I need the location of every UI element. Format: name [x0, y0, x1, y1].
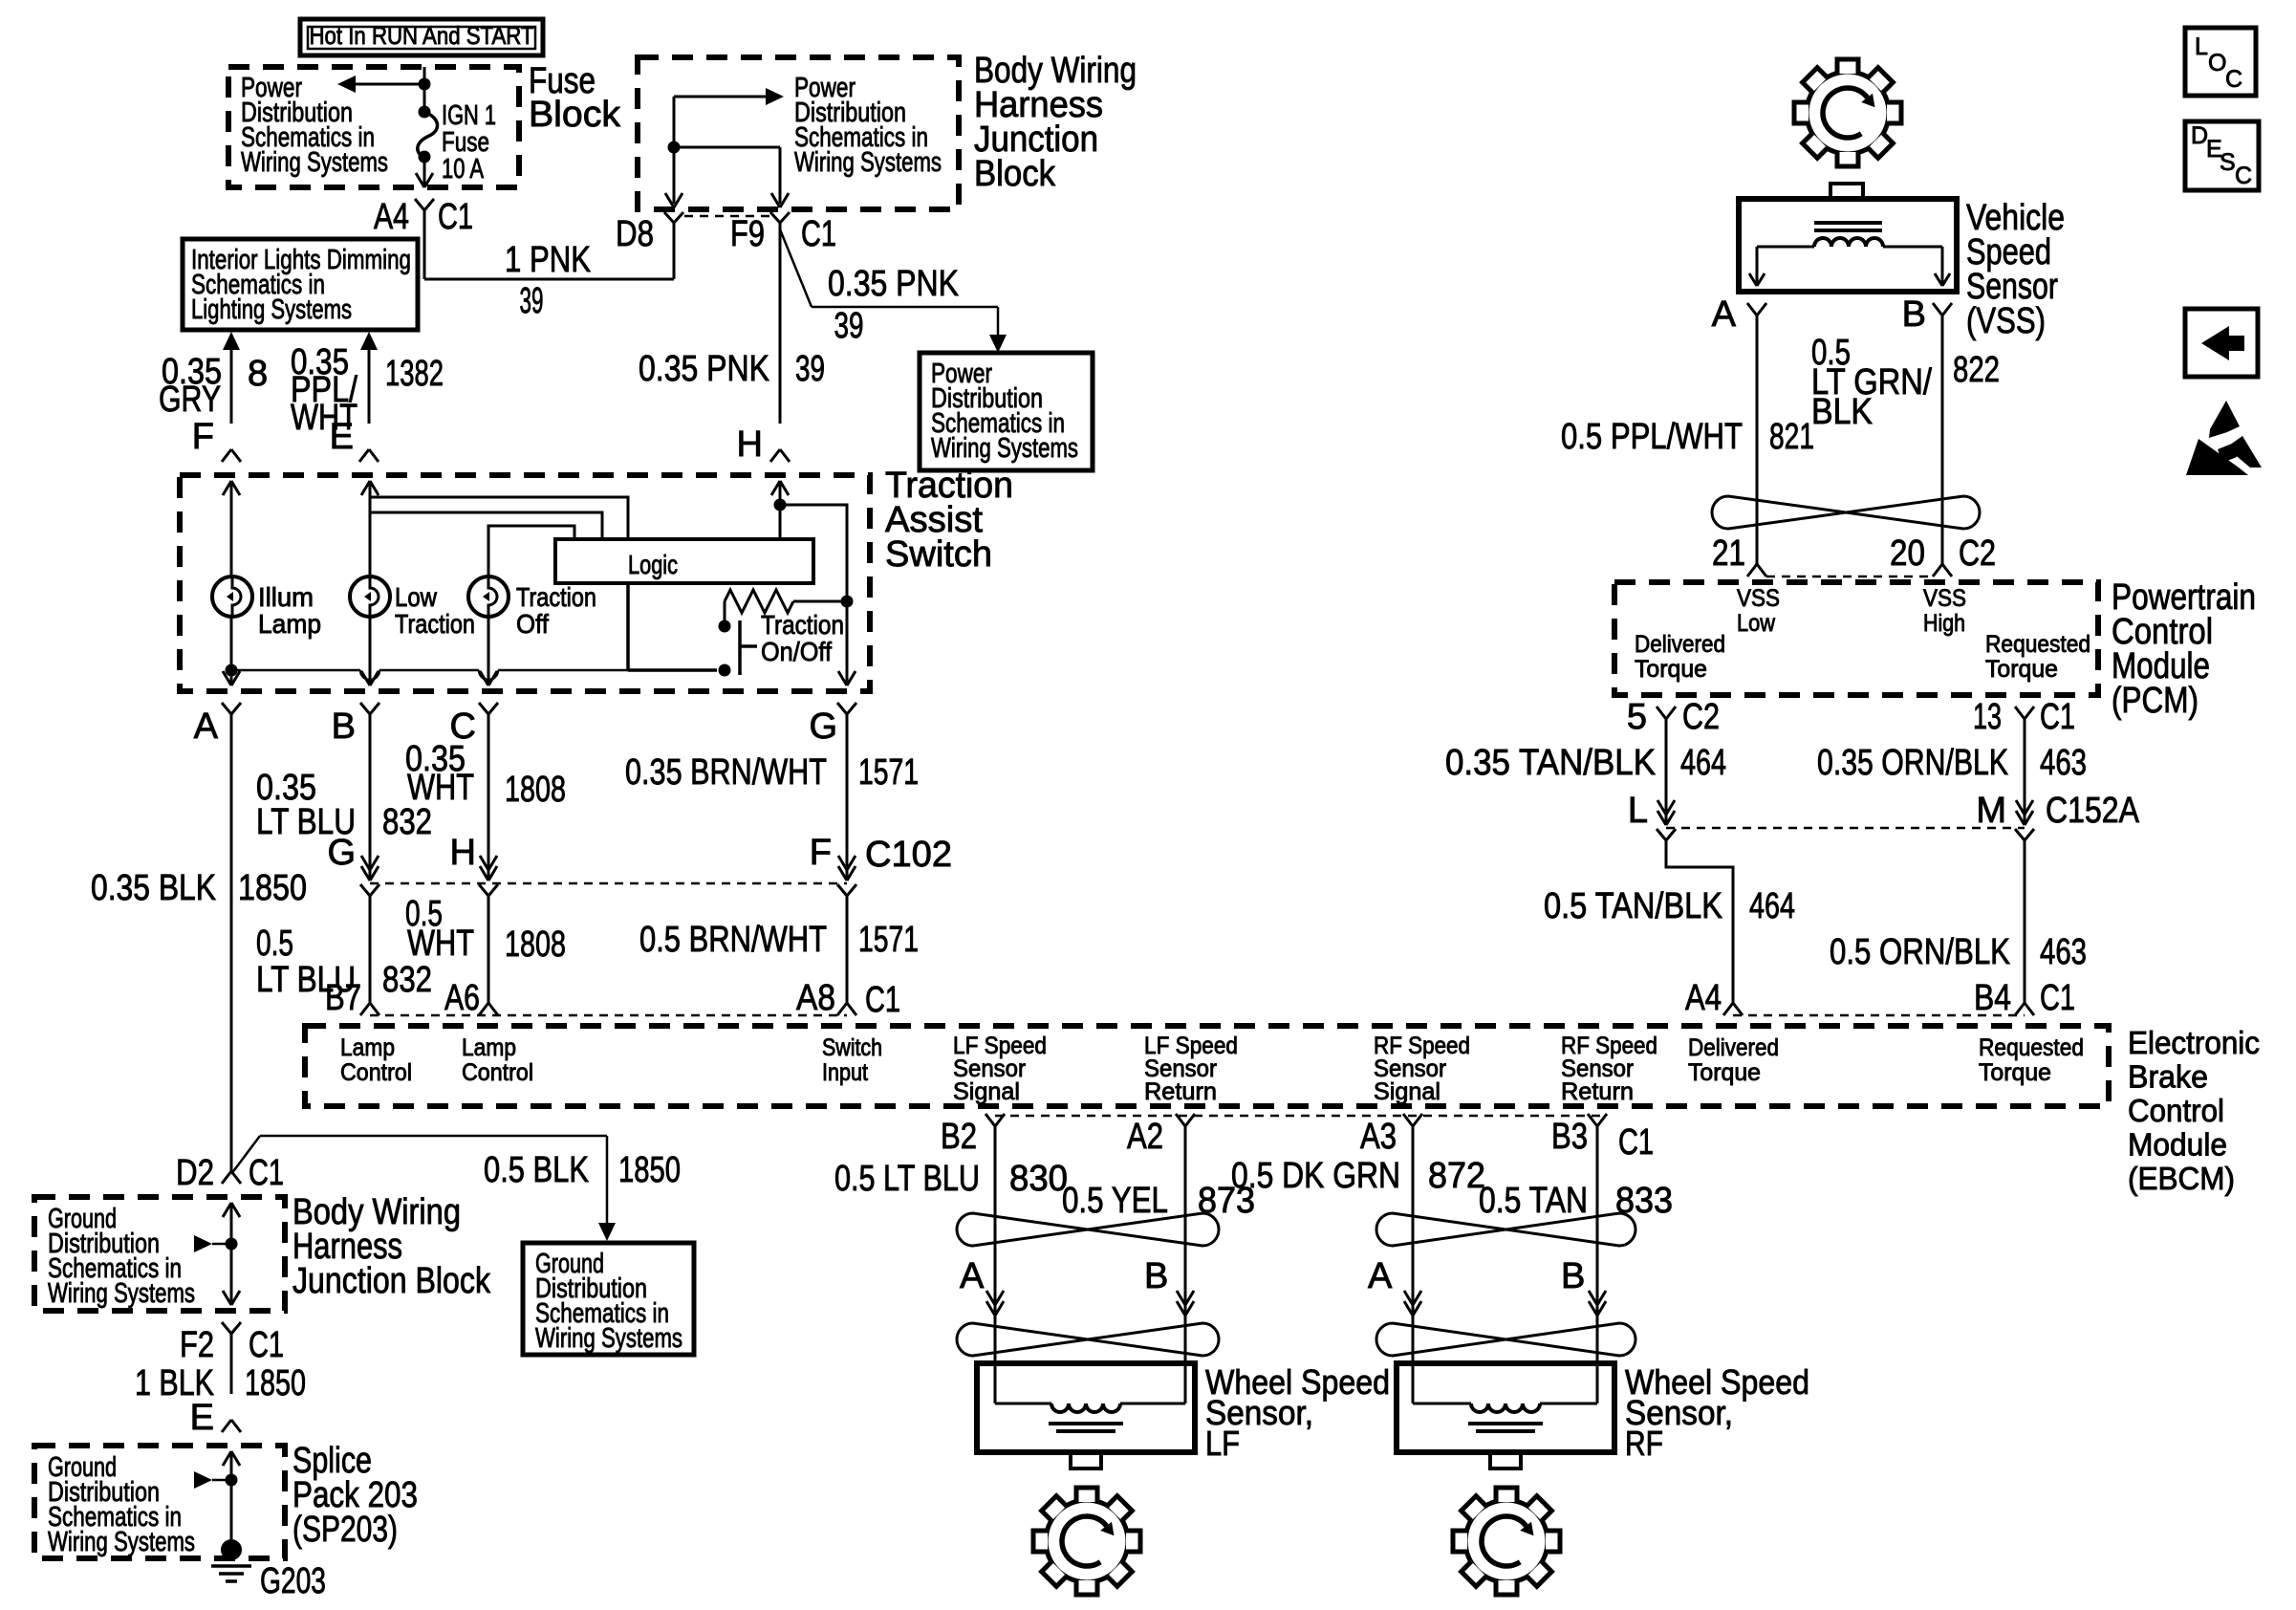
svg-text:Low: Low: [395, 582, 438, 612]
svg-text:1850: 1850: [245, 1363, 306, 1403]
svg-text:D2: D2: [176, 1153, 214, 1193]
svg-text:Brake: Brake: [2128, 1059, 2208, 1095]
svg-text:Return: Return: [1561, 1078, 1634, 1105]
svg-text:Switch: Switch: [885, 534, 992, 575]
svg-text:Wiring Systems: Wiring Systems: [535, 1323, 682, 1354]
svg-text:A: A: [194, 707, 219, 747]
svg-text:1382: 1382: [385, 354, 444, 394]
svg-text:Delivered: Delivered: [1688, 1034, 1779, 1061]
svg-text:830: 830: [1009, 1159, 1068, 1199]
svg-text:F9: F9: [730, 214, 765, 254]
svg-text:A2: A2: [1127, 1117, 1163, 1157]
svg-text:0.5 ORN/BLK: 0.5 ORN/BLK: [1830, 932, 2010, 972]
svg-text:1850: 1850: [618, 1150, 681, 1190]
svg-text:1808: 1808: [505, 925, 566, 965]
svg-text:F2: F2: [180, 1325, 214, 1365]
svg-text:B: B: [332, 707, 356, 747]
svg-text:B: B: [1902, 294, 1926, 335]
svg-text:Switch: Switch: [822, 1034, 882, 1061]
svg-text:20: 20: [1890, 533, 1925, 574]
svg-text:C1: C1: [2040, 978, 2075, 1018]
svg-text:C1: C1: [438, 197, 473, 237]
svg-text:21: 21: [1712, 533, 1745, 574]
svg-text:0.5 TAN: 0.5 TAN: [1479, 1181, 1588, 1221]
svg-text:Block: Block: [974, 154, 1056, 194]
svg-text:872: 872: [1428, 1156, 1485, 1196]
svg-text:0.5 BRN/WHT: 0.5 BRN/WHT: [639, 920, 827, 960]
svg-text:A: A: [960, 1256, 985, 1296]
svg-text:C1: C1: [2040, 697, 2075, 737]
svg-text:Torque: Torque: [1635, 656, 1707, 683]
svg-text:Lamp: Lamp: [340, 1034, 395, 1061]
svg-text:(EBCM): (EBCM): [2128, 1161, 2235, 1196]
svg-text:D8: D8: [616, 214, 654, 254]
svg-text:Delivered: Delivered: [1635, 631, 1725, 658]
svg-text:Module: Module: [2128, 1127, 2227, 1163]
svg-text:Control: Control: [340, 1059, 412, 1086]
svg-text:B4: B4: [1974, 978, 2011, 1018]
svg-text:WHT: WHT: [407, 924, 474, 964]
svg-text:0.35 PNK: 0.35 PNK: [639, 349, 769, 389]
svg-text:Torque: Torque: [1985, 656, 2058, 683]
svg-text:B2: B2: [941, 1117, 977, 1157]
svg-text:13: 13: [1973, 697, 2002, 737]
svg-text:0.35 TAN/BLK: 0.35 TAN/BLK: [1445, 743, 1656, 783]
svg-text:39: 39: [520, 281, 544, 321]
svg-text:G: G: [327, 833, 356, 873]
svg-text:1571: 1571: [858, 920, 919, 960]
svg-text:Off: Off: [516, 609, 549, 639]
svg-text:Return: Return: [1144, 1078, 1217, 1105]
svg-text:C1: C1: [249, 1153, 284, 1193]
svg-text:Traction: Traction: [516, 582, 596, 612]
svg-text:Logic: Logic: [628, 550, 678, 579]
svg-text:B7: B7: [325, 978, 361, 1018]
svg-text:Junction Block: Junction Block: [292, 1261, 491, 1301]
svg-text:BLK: BLK: [1811, 392, 1873, 432]
svg-text:H: H: [450, 833, 476, 873]
svg-text:832: 832: [382, 802, 432, 842]
svg-text:C1: C1: [249, 1325, 284, 1365]
svg-text:F: F: [810, 833, 832, 873]
svg-text:0.5 BLK: 0.5 BLK: [484, 1150, 589, 1190]
svg-text:0.5 YEL: 0.5 YEL: [1062, 1181, 1168, 1221]
svg-text:C2: C2: [1959, 533, 1996, 574]
svg-text:B: B: [1144, 1256, 1168, 1296]
svg-text:10 A: 10 A: [442, 154, 484, 185]
svg-text:Lighting Systems: Lighting Systems: [191, 294, 352, 325]
svg-text:Control: Control: [2128, 1093, 2224, 1128]
svg-text:0.35 BLK: 0.35 BLK: [91, 868, 216, 908]
svg-text:L: L: [2195, 33, 2208, 60]
svg-text:5: 5: [1627, 697, 1647, 737]
svg-text:A6: A6: [444, 978, 480, 1018]
svg-text:L: L: [1628, 791, 1648, 831]
svg-text:A: A: [1712, 294, 1737, 335]
svg-text:39: 39: [795, 349, 825, 389]
svg-text:464: 464: [1749, 886, 1795, 926]
svg-text:LF: LF: [1205, 1424, 1240, 1463]
svg-text:0.5 TAN/BLK: 0.5 TAN/BLK: [1544, 886, 1722, 926]
svg-text:821: 821: [1769, 417, 1814, 457]
svg-text:Wiring Systems: Wiring Systems: [48, 1278, 195, 1309]
svg-text:Wiring Systems: Wiring Systems: [48, 1527, 195, 1557]
svg-text:Torque: Torque: [1979, 1059, 2051, 1086]
svg-text:Illum: Illum: [258, 582, 314, 612]
svg-text:463: 463: [2040, 743, 2087, 783]
svg-text:0.5 DK GRN: 0.5 DK GRN: [1231, 1156, 1400, 1196]
svg-text:H: H: [737, 424, 763, 465]
svg-text:C1: C1: [1618, 1122, 1654, 1163]
svg-text:Lamp: Lamp: [258, 609, 321, 639]
svg-text:S: S: [2220, 149, 2236, 176]
svg-text:E: E: [330, 417, 354, 457]
svg-text:VSS: VSS: [1923, 585, 1966, 612]
svg-text:Lamp: Lamp: [462, 1034, 516, 1061]
svg-text:Traction: Traction: [761, 610, 844, 640]
svg-text:RF: RF: [1625, 1424, 1663, 1463]
svg-text:B3: B3: [1551, 1117, 1588, 1157]
svg-text:G203: G203: [260, 1561, 326, 1601]
svg-text:C1: C1: [801, 214, 836, 254]
svg-text:GRY: GRY: [159, 380, 221, 420]
svg-text:463: 463: [2040, 932, 2087, 972]
svg-text:High: High: [1923, 610, 1965, 637]
svg-text:M: M: [1976, 791, 2006, 831]
svg-text:O: O: [2208, 50, 2226, 76]
svg-text:0.35 ORN/BLK: 0.35 ORN/BLK: [1817, 743, 2008, 783]
svg-text:1850: 1850: [238, 868, 307, 908]
svg-text:0.5 PPL/WHT: 0.5 PPL/WHT: [1561, 417, 1743, 457]
svg-text:Signal: Signal: [953, 1078, 1020, 1105]
svg-text:Requested: Requested: [1979, 1034, 2084, 1061]
svg-text:Wiring Systems: Wiring Systems: [931, 433, 1078, 464]
svg-text:0.35 PNK: 0.35 PNK: [828, 264, 959, 304]
svg-text:832: 832: [382, 960, 432, 1000]
svg-text:C2: C2: [1682, 697, 1720, 737]
svg-text:A8: A8: [796, 978, 835, 1018]
svg-text:Requested: Requested: [1985, 631, 2090, 658]
svg-text:On/Off: On/Off: [761, 637, 832, 666]
svg-text:Traction: Traction: [395, 609, 475, 639]
svg-text:C: C: [2225, 66, 2242, 93]
svg-text:B: B: [1561, 1256, 1585, 1296]
svg-text:(VSS): (VSS): [1966, 301, 2046, 341]
svg-text:Block: Block: [529, 95, 621, 135]
svg-text:F: F: [192, 417, 214, 457]
svg-text:C1: C1: [865, 980, 900, 1020]
svg-text:1808: 1808: [505, 770, 566, 810]
svg-text:822: 822: [1953, 350, 2000, 390]
svg-text:1571: 1571: [858, 752, 919, 793]
svg-text:0.35 BRN/WHT: 0.35 BRN/WHT: [625, 752, 827, 793]
svg-text:Torque: Torque: [1688, 1059, 1761, 1086]
svg-text:0.5 LT BLU: 0.5 LT BLU: [834, 1159, 980, 1199]
svg-text:8: 8: [248, 354, 268, 394]
svg-text:Electronic: Electronic: [2128, 1025, 2260, 1060]
svg-text:Wiring Systems: Wiring Systems: [794, 147, 942, 178]
svg-text:C: C: [2235, 163, 2252, 189]
svg-text:(SP203): (SP203): [292, 1510, 398, 1550]
svg-text:A4: A4: [374, 197, 409, 237]
svg-text:Signal: Signal: [1374, 1078, 1440, 1105]
svg-text:(PCM): (PCM): [2112, 681, 2199, 721]
svg-text:Input: Input: [822, 1059, 868, 1086]
svg-text:Low: Low: [1737, 610, 1776, 637]
svg-text:464: 464: [1680, 743, 1726, 783]
svg-text:A: A: [1368, 1256, 1393, 1296]
svg-text:WHT: WHT: [407, 768, 474, 808]
svg-text:A3: A3: [1360, 1117, 1397, 1157]
svg-text:C152A: C152A: [2046, 791, 2140, 831]
svg-text:E: E: [190, 1398, 214, 1438]
svg-text:G: G: [809, 707, 837, 747]
svg-text:1 PNK: 1 PNK: [505, 240, 591, 280]
svg-text:Wiring Systems: Wiring Systems: [241, 147, 388, 178]
svg-text:Hot In RUN And START: Hot In RUN And START: [310, 21, 534, 50]
svg-text:C102: C102: [865, 835, 952, 875]
svg-text:0.5: 0.5: [256, 924, 293, 964]
svg-text:VSS: VSS: [1737, 585, 1780, 612]
svg-text:39: 39: [834, 306, 864, 346]
svg-text:Control: Control: [462, 1059, 533, 1086]
svg-text:A4: A4: [1685, 978, 1722, 1018]
